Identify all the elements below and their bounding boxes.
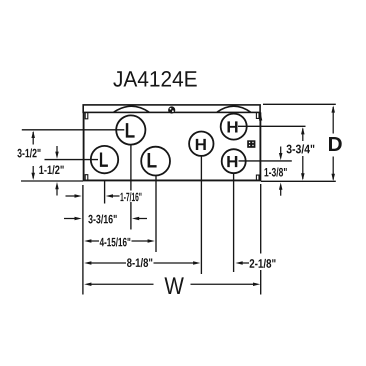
dim 1-3/8 upper tail [280,147,282,154]
corner tab bottom-left [85,175,88,180]
dim W right line [191,283,255,285]
center line bottom L [155,176,157,252]
label L top [126,123,135,137]
center line top L lower [130,202,132,230]
dim 3-3/4 upper line [302,129,304,142]
dim text 3-3/16 [88,214,116,223]
dim D bottom arrow [331,174,335,181]
extension line box right edge upper [260,184,262,254]
arrow up on inner right edge [259,113,262,120]
dim 3-3/4 lower line [302,156,304,179]
label L bottom [148,153,157,167]
dim 3-3/4 bottom arrow [301,173,305,180]
center line middle H [200,156,202,274]
knockout circle L left [91,146,118,173]
dim 1-1/2 bottom arrow [55,182,59,189]
box bottom edge extension right [261,180,336,182]
dim letter D [329,137,342,151]
dim text 4-15/16 [100,237,131,246]
knockout bump over top H [217,106,251,112]
corner tab top-right [256,113,259,119]
dim 8-1/8 left arrow [84,261,91,265]
box top edge extension right [263,103,336,105]
label H top-right [228,121,238,132]
dim D top arrow [331,105,335,112]
dim 1-1/2 lower tail [56,188,58,196]
dim W left line [90,283,154,285]
dim 3-3/16 right arrow [132,217,139,221]
dim letter W [165,277,184,294]
dim 3-3/16 inner tail [139,218,148,220]
corner tab top-left [85,113,88,119]
dim 3-3/4 top arrow [301,127,305,134]
dim 3-3/16 left arrow [75,217,82,221]
knockout circle H bottom-right [222,149,246,173]
dim 1-7/16 outside tail [66,195,76,197]
dim 1-1/2 top arrow [55,152,59,159]
knockout circle H middle [189,132,213,156]
dim W left arrow [84,283,91,287]
dim 1-7/16 right arrow [106,194,113,198]
dim text 1-3/8 [265,168,287,177]
leader line to left L center [45,159,99,161]
dim 1-7/16 inner tail [112,195,120,197]
dim 3-1/2 line upper [32,132,34,145]
dim text 1-1/2 [39,165,63,174]
dim 8-1/8 right line [154,262,195,264]
dim W right arrow [253,283,260,287]
dim 1-3/8 bottom arrow [279,183,283,190]
box body outline [84,112,261,180]
dim D upper line [332,107,334,134]
dim 1-7/16 left arrow [75,194,82,198]
cover screw [168,106,175,113]
dim 4-15/16 right arrow [148,239,155,243]
dim 2-1/8 tail [241,262,249,264]
label H bottom-right [227,156,237,167]
leader line from top H [238,125,306,127]
knockout circle L bottom [141,147,170,176]
dim 3-3/16 outside tail [64,218,76,220]
knockout bump over top L [114,106,149,112]
dim 4-15/16 left arrow [84,239,91,243]
leader line from bottom H [239,160,292,162]
center line left L [104,181,106,204]
box bottom edge extension left [21,180,83,182]
dim D lower line [332,157,334,180]
dim 3-1/2 top arrow [31,131,35,138]
dim 8-1/8 left line [90,262,126,264]
label H middle [196,139,206,150]
dim 1-3/8 top arrow [279,153,283,160]
extension line box left edge [82,185,84,295]
dim 3-1/2 bottom arrow [31,173,35,180]
box lid flange [83,105,260,113]
label L left [100,152,108,166]
dim text 2-1/8 [250,259,276,268]
ground lug [247,140,255,148]
dim 4-15/16 right tail [132,240,149,242]
extension line box right edge lower [260,270,262,295]
dim 4-15/16 left tail [90,240,99,242]
knockout circle L top [116,115,145,144]
dim text 3-1/2 [17,148,40,157]
knockout circle H top-right [221,114,247,140]
center line bottom H [233,174,235,272]
leader line to top L center [22,129,125,131]
dim 1-3/8 lower tail [280,190,282,196]
center line top L upper [130,145,132,191]
title JA4124E [113,71,196,87]
corner tab bottom-right [256,175,259,180]
dim 1-1/2 upper tail [56,146,58,153]
dim 8-1/8 right arrow [193,261,200,265]
dim text 1-7/16 [121,192,142,201]
dim 2-1/8 arrow [236,261,243,265]
dim text 3-3/4 [287,144,315,153]
dim 3-1/2 line lower [32,166,34,178]
dim text 8-1/8 [127,258,152,267]
